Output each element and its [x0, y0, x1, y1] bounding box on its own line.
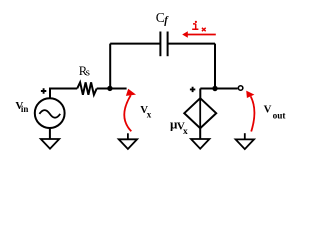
node Vx junction dot	[107, 86, 112, 91]
current ix arrow (red, pointing left)	[187, 34, 216, 36]
ground under Vin	[41, 139, 59, 149]
ground for Vout arrow	[244, 133, 246, 139]
svg-text:x: x	[147, 110, 152, 120]
ground for Vx arrow	[127, 133, 129, 139]
plus sign of dependent source	[190, 87, 195, 92]
plus sign of Vin	[41, 88, 46, 93]
svg-text:V: V	[264, 103, 272, 115]
ground under dependent source	[191, 139, 209, 149]
wire: right rail down to output node	[214, 44, 216, 89]
dependent source inner bar	[199, 98, 201, 128]
wire: top rail right of capacitor	[168, 43, 215, 45]
voltage arrow Vout (red curved)	[251, 96, 255, 131]
capacitor Cf left plate	[159, 32, 161, 57]
label ix (red)	[192, 21, 198, 29]
svg-text:x: x	[183, 127, 188, 137]
sine wave inside Vin	[39, 110, 60, 118]
capacitor Cf right plate	[167, 32, 169, 57]
node output junction dot	[212, 86, 217, 91]
source Vin circle	[35, 98, 65, 128]
wire: node up to top rail	[109, 44, 111, 89]
wire: diamond bottom to ground	[199, 128, 201, 139]
wire: Vin bottom stub	[49, 128, 51, 139]
wire: Vin top stub to corner then right to resistor	[50, 89, 77, 99]
dependent source U1 diamond	[184, 98, 216, 128]
svg-text:in: in	[21, 104, 29, 114]
wire: stub from rail down to diamond top	[199, 89, 201, 99]
output terminal open circle	[238, 86, 243, 91]
svg-text:s: s	[86, 67, 90, 79]
svg-text:out: out	[273, 111, 287, 121]
wire: node to dependent source stub and to output terminal	[200, 88, 237, 90]
wire: resistor to node and stub right of node	[97, 88, 127, 90]
wire: top rail left of capacitor	[110, 43, 159, 45]
voltage arrow Vx (red curved)	[124, 95, 131, 131]
resistor Rs	[77, 82, 97, 95]
